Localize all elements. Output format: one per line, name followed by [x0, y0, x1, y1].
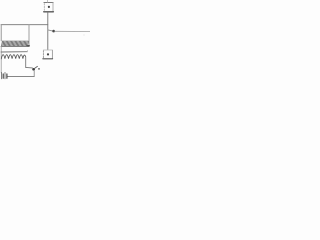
- node dot on right wire: [52, 30, 55, 33]
- heater element hatched band under furnace: [1, 41, 29, 47]
- wire vertical from G1 down to junction box: [47, 12, 49, 50]
- key K1 contact dot: [38, 68, 40, 70]
- switch lever segment from vertical to node dot: [48, 30, 52, 31]
- heater band bottom line: [1, 45, 29, 47]
- wire top horizontal from furnace to vertical: [1, 24, 48, 26]
- galvanometer G1 (top box with center dot): [44, 3, 54, 12]
- junction box (bottom box with center dot): [43, 50, 53, 59]
- wire bottom horizontal to battery: [8, 75, 35, 77]
- dust speck: [84, 35, 85, 36]
- key K1 pivot dot: [32, 68, 35, 71]
- battery B1: [2, 72, 7, 79]
- wire left column (furnace to battery): [0, 46, 2, 73]
- rheostat R1 coil (rounded humps): [1, 55, 25, 59]
- furnace box (left chamber): [1, 25, 29, 47]
- wire horizontal to key: [26, 66, 33, 69]
- wire riser from coil down: [25, 57, 27, 68]
- rheostat slider bar: [1, 51, 27, 53]
- wire stub above galvanometer G1: [47, 0, 49, 2]
- wire riser from key down to battery wire: [33, 70, 35, 76]
- key K1 lever: [34, 66, 37, 68]
- slider bar end tick: [26, 50, 28, 53]
- wire right horizontal to edge: [55, 30, 90, 32]
- heater band dark right corner: [27, 45, 29, 47]
